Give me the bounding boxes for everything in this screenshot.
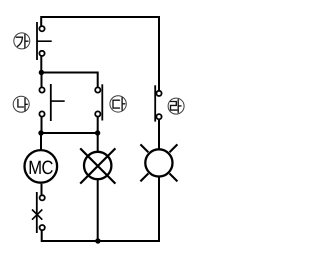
switch 라 bar: [154, 85, 156, 121]
label 나: [13, 96, 29, 112]
node B junction dot: [38, 130, 43, 135]
switch 라 top contact: [156, 91, 161, 96]
label 다: [110, 96, 126, 112]
label 가: [14, 33, 30, 49]
node A junction dot: [39, 70, 44, 75]
pushbutton 나 bottom contact: [39, 111, 44, 116]
wire: bottom rail and lower right rail: [42, 177, 159, 241]
pilot lamp L2 circle: [145, 149, 172, 176]
node D junction dot (bottom rail): [95, 238, 100, 243]
wire: 라 to pilot lamp L2: [158, 120, 160, 151]
pushbutton 가 bar: [36, 22, 38, 60]
wire: junction B to junction C: [41, 132, 98, 134]
wire: 가 bottom to junction A: [40, 56, 42, 73]
thermal contact bottom terminal: [40, 225, 45, 230]
wire: branch from junction A to contact 다: [41, 73, 97, 88]
switch 라 bottom contact: [156, 114, 161, 119]
thermal contact top terminal: [40, 195, 45, 200]
pushbutton 가 bottom contact: [39, 51, 44, 56]
thermal contact bar: [36, 192, 38, 233]
pilot lamp L2 rays: [140, 144, 177, 181]
pushbutton 가 actuator: [37, 40, 52, 42]
wire: lamp L1 bottom lead: [97, 180, 99, 242]
label 라: [168, 98, 184, 114]
pushbutton 나 actuator: [51, 100, 65, 102]
pushbutton 나 bar: [50, 84, 52, 121]
coil MC circle: [25, 150, 58, 183]
wire: 다 bottom to junction C: [97, 117, 99, 133]
contact 다 bottom contact: [95, 111, 100, 116]
contact 다 bar: [101, 84, 103, 120]
wire: 나 bottom to junction B: [41, 117, 43, 133]
lamp L1 circle: [84, 152, 111, 179]
wire: MC to thermal contact: [41, 184, 43, 195]
pushbutton 나 top contact: [39, 87, 44, 92]
contact 다 top contact: [95, 87, 100, 92]
node C junction dot: [95, 130, 100, 135]
wire: junction A down to pushbutton 나: [41, 73, 43, 88]
thermal contact X mark: [32, 210, 42, 220]
coil MC text: [30, 161, 53, 175]
pushbutton 가 top contact: [39, 26, 44, 31]
lamp L1 cross lines: [80, 148, 115, 183]
wire: lamp L1 top lead: [97, 133, 99, 153]
wire: junction B down to coil MC: [40, 133, 42, 151]
wire: top rail and upper right rail: [41, 17, 159, 91]
